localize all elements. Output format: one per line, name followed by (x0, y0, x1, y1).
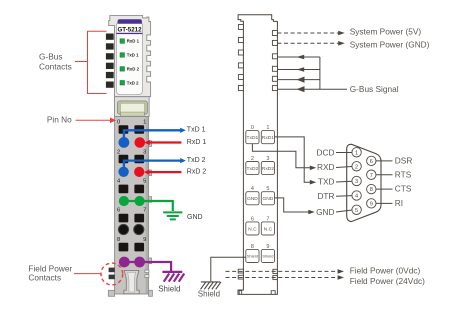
wire hole row1 right (134, 125, 144, 134)
line pin9 to RI (376, 202, 393, 204)
svg-text:Pin No: Pin No (47, 114, 72, 124)
db9 pin 9 (367, 199, 376, 208)
svg-text:GND: GND (316, 207, 334, 217)
svg-text:RxD 2: RxD 2 (127, 67, 140, 72)
terminal 9 purple circle (134, 257, 145, 268)
wire TxD2 blue (124, 161, 181, 168)
field power contacts schematic left (238, 269, 243, 279)
svg-text:TXD: TXD (318, 177, 335, 187)
svg-text:G-Bus Signal: G-Bus Signal (350, 84, 399, 94)
svg-text:TxD 2: TxD 2 (187, 157, 206, 164)
svg-text:3: 3 (266, 156, 269, 162)
shield ground symbol (201, 282, 222, 289)
green bus connector (117, 101, 147, 114)
LED RxD1 (120, 39, 125, 44)
db9 pin 7 (367, 170, 376, 179)
svg-text:DSR: DSR (395, 156, 413, 166)
svg-text:TxD 1: TxD 1 (127, 53, 139, 58)
wire GND to GND (275, 198, 310, 212)
svg-text:6: 6 (117, 208, 120, 214)
box TxD2 (246, 162, 259, 175)
terminal 7 black circle (134, 224, 144, 234)
module outline (238, 15, 277, 295)
svg-text:9: 9 (370, 202, 373, 208)
line pin6 to DSR (376, 160, 393, 162)
LED TxD1 (120, 53, 125, 58)
svg-text:TxD2: TxD2 (247, 166, 259, 172)
svg-text:4: 4 (355, 194, 358, 200)
box NC right (261, 222, 274, 235)
svg-text:5: 5 (355, 208, 358, 214)
module top housing (109, 16, 151, 97)
svg-text:Field Power (0Vdc): Field Power (0Vdc) (350, 266, 421, 276)
terminal 1 red circle (135, 137, 146, 148)
wire RxD1 red (147, 141, 182, 143)
wire RxD2 red (146, 171, 181, 173)
bus connector recess (115, 97, 150, 117)
red dashed circle (101, 263, 123, 285)
terminal 0 blue circle (119, 137, 130, 148)
box RxD2 (261, 162, 274, 175)
right contact squares (272, 31, 277, 91)
svg-text:System Power (5V): System Power (5V) (350, 27, 422, 37)
svg-text:G-Bus: G-Bus (39, 52, 63, 62)
red bracket (75, 31, 107, 93)
DB9 connector outline (347, 144, 381, 221)
ground symbol green (163, 212, 182, 219)
terminal 4 green circle (119, 196, 129, 206)
G-Bus contact pins (black) (106, 34, 114, 88)
svg-text:9: 9 (143, 237, 146, 243)
terminal 8 purple circle (119, 257, 130, 268)
svg-text:8: 8 (117, 237, 120, 243)
svg-text:RxD2: RxD2 (262, 166, 275, 172)
LED TxD2 (120, 81, 125, 86)
svg-text:Shield: Shield (262, 254, 273, 259)
svg-text:8: 8 (370, 187, 373, 193)
svg-text:Shield: Shield (198, 289, 220, 298)
svg-text:2: 2 (251, 156, 254, 162)
g-bus arrowheads (297, 55, 305, 60)
svg-text:GND: GND (247, 196, 258, 202)
wire GND green (124, 201, 173, 211)
terminal 3 red circle (134, 167, 144, 177)
dashed system power GND (277, 42, 339, 44)
red arrow to pin 0 (76, 119, 112, 121)
svg-text:RxD 1: RxD 1 (127, 39, 140, 44)
wire hole row5 left (119, 243, 129, 252)
wire hole row2 left (119, 155, 129, 164)
g-bus signal lines (277, 57, 347, 89)
wire hole row3 right (134, 185, 144, 194)
db9 pin 6 (367, 156, 376, 165)
purple underline (116, 33, 142, 34)
line pin8 to CTS (376, 188, 393, 190)
right side tabs (145, 141, 152, 278)
db9 pin 5 (352, 205, 361, 214)
red pointer line (74, 274, 102, 276)
svg-text:RxD 2: RxD 2 (187, 168, 207, 175)
svg-text:6: 6 (370, 159, 373, 165)
dashed field power 24Vdc (226, 277, 340, 279)
svg-text:2: 2 (355, 164, 358, 170)
svg-text:7: 7 (370, 173, 373, 179)
bottom feet (108, 290, 114, 296)
terminal 5 green circle (135, 196, 145, 206)
terminal 6 black circle (118, 224, 128, 234)
white label panel (116, 22, 142, 95)
line pin7 to RTS (376, 174, 393, 176)
wire hole row5 right (134, 243, 144, 252)
terminal 2 blue circle (118, 167, 128, 177)
svg-text:RxD 1: RxD 1 (187, 139, 207, 146)
svg-text:3: 3 (143, 150, 146, 156)
svg-text:TxD 2: TxD 2 (127, 80, 139, 85)
box NC left (246, 222, 259, 235)
svg-text:TxD1: TxD1 (247, 135, 259, 141)
wire hole row1 left (119, 125, 129, 134)
bottom slot right (271, 291, 275, 295)
svg-text:RXD: RXD (317, 162, 335, 172)
svg-text:0: 0 (117, 119, 120, 125)
wire hole row4 left (119, 214, 129, 223)
svg-text:DCD: DCD (317, 147, 335, 157)
dashed system power 5V (277, 32, 339, 34)
svg-text:0: 0 (251, 125, 254, 131)
svg-text:Contacts: Contacts (28, 272, 61, 282)
svg-text:Shield: Shield (247, 254, 258, 259)
wire hole row2 right (134, 155, 144, 164)
purple top bar (118, 19, 142, 24)
db9 pin 1 (352, 148, 361, 157)
svg-text:TxD 1: TxD 1 (187, 127, 206, 134)
svg-text:System Power (GND): System Power (GND) (350, 40, 430, 50)
dashed field power 0Vdc (226, 270, 340, 272)
box Shield left (246, 249, 259, 262)
field power contacts schematic right (273, 269, 277, 279)
db9 pin 2 (352, 162, 361, 171)
svg-text:N.C: N.C (248, 226, 257, 232)
wire RxD1 to TXD (275, 137, 312, 182)
shield wire to ground (211, 257, 246, 281)
box RxD1 (261, 131, 274, 144)
db9 pin 3 (352, 176, 361, 185)
shield symbol purple (162, 272, 184, 282)
LED RxD2 (120, 67, 125, 72)
svg-text:N.C: N.C (264, 226, 273, 232)
svg-text:CTS: CTS (395, 184, 412, 194)
field power contact tabs (109, 268, 115, 273)
wire shield purple (124, 262, 171, 271)
svg-text:RxD1: RxD1 (262, 135, 275, 141)
box GND right (261, 192, 274, 205)
wire TxD1 to RXD (252, 144, 311, 168)
terminal block body (115, 117, 149, 295)
svg-text:1: 1 (266, 125, 269, 131)
bottom slot left (239, 291, 242, 295)
svg-text:1: 1 (355, 150, 358, 156)
wire hole row3 left (119, 185, 129, 194)
svg-text:RI: RI (395, 198, 403, 208)
svg-text:3: 3 (355, 179, 358, 185)
wire TxD1 blue (124, 130, 181, 138)
db9 pin 4 (352, 191, 361, 200)
db9 pin 8 (367, 184, 376, 193)
svg-text:Field Power (24Vdc): Field Power (24Vdc) (350, 276, 425, 286)
svg-text:5: 5 (143, 179, 146, 185)
svg-text:DTR: DTR (317, 191, 334, 201)
svg-text:GND: GND (262, 196, 273, 202)
bottom latch (124, 270, 139, 293)
left g-bus contact squares (238, 25, 243, 91)
wire hole row4 right (134, 214, 144, 223)
box Shield right (261, 249, 274, 262)
svg-text:7: 7 (143, 208, 146, 214)
svg-text:1: 1 (143, 119, 146, 125)
svg-text:Contacts: Contacts (39, 62, 72, 72)
svg-text:GND: GND (187, 214, 203, 221)
box TxD1 (246, 131, 259, 144)
svg-text:GT-5212: GT-5212 (117, 26, 142, 33)
box GND left (246, 192, 259, 205)
svg-text:RTS: RTS (395, 169, 412, 179)
svg-text:Shield: Shield (158, 284, 180, 293)
